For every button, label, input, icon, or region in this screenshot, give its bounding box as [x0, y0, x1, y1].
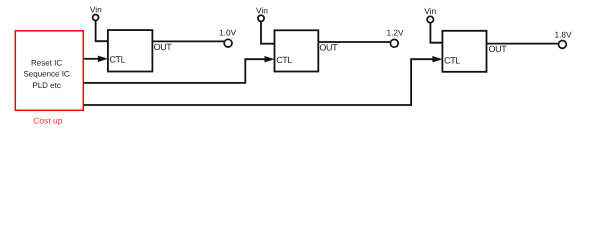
regulator U1 (1.0V) — [108, 30, 172, 71]
wire: Vin to U1 left pin — [96, 21, 108, 42]
wire: control U4 to U3 CTL (with arrowhead) — [83, 56, 442, 105]
svg-text:Vin: Vin — [90, 4, 102, 14]
svg-text:CTL: CTL — [109, 54, 125, 64]
power terminal Vin (U2) — [256, 6, 268, 22]
controller body (red outline) — [15, 31, 83, 111]
terminal circle 1.2V — [390, 39, 398, 47]
terminal circle 1.8V — [559, 41, 567, 49]
svg-text:1.8V: 1.8V — [554, 29, 572, 39]
output terminal node 1.2V — [386, 28, 404, 48]
power terminal Vin (U3) — [424, 6, 436, 23]
wire segment: U4 right edge to U1 CTL — [83, 58, 98, 60]
svg-text:Reset IC: Reset IC — [31, 58, 62, 67]
terminal circle Vin (U3) — [427, 16, 433, 22]
block U4: Reset IC / Sequence IC / PLD controller (red box) — [15, 31, 83, 111]
wire: U3 OUT to 1.8V terminal — [487, 43, 559, 45]
arrowhead into U3 CTL — [432, 56, 442, 62]
wire segments: U4 right edge, bottom run to x411, up, into U3 CTL — [83, 59, 432, 105]
wire segments: U4 right edge, run to x245, up, into U2 CTL — [83, 59, 265, 83]
wire: control U4 to U2 CTL (with arrowhead) — [83, 56, 274, 83]
svg-text:1.2V: 1.2V — [386, 28, 404, 38]
svg-text:Vin: Vin — [424, 6, 436, 16]
wire: U1 OUT to 1.0V terminal — [152, 40, 224, 42]
terminal circle 1.0V — [224, 39, 232, 47]
svg-text:Vin: Vin — [256, 6, 268, 16]
U2 body — [275, 30, 319, 71]
svg-text:Sequence IC: Sequence IC — [23, 70, 69, 79]
svg-text:CTL: CTL — [276, 55, 292, 65]
wire: control U4 to U1 CTL (with arrowhead) — [83, 56, 108, 62]
svg-text:CTL: CTL — [444, 55, 460, 65]
arrowhead into U1 CTL — [98, 56, 108, 62]
svg-text:PLD etc: PLD etc — [32, 81, 60, 90]
U3 body — [442, 31, 486, 72]
wire: Vin to U3 left pin — [430, 23, 442, 43]
svg-text:OUT: OUT — [319, 43, 338, 53]
regulator U3 (1.8V) — [442, 31, 507, 72]
power terminal Vin (U1) — [90, 4, 102, 20]
terminal circle Vin (U2) — [258, 15, 264, 21]
U1 body — [108, 30, 152, 71]
wire: Vin to U2 left pin — [261, 21, 275, 43]
svg-text:Cost up: Cost up — [33, 115, 63, 125]
output terminal node 1.8V — [554, 29, 572, 48]
svg-text:OUT: OUT — [154, 42, 173, 52]
regulator U2 (1.2V) — [275, 30, 339, 71]
terminal circle Vin (U1) — [93, 15, 99, 21]
svg-text:OUT: OUT — [489, 44, 508, 54]
wire: U2 OUT to 1.2V terminal — [318, 41, 390, 43]
svg-text:1.0V: 1.0V — [219, 28, 237, 38]
output terminal node 1.0V — [219, 28, 237, 47]
arrowhead into U2 CTL — [265, 56, 275, 62]
